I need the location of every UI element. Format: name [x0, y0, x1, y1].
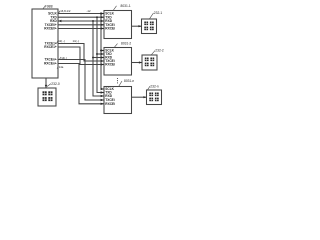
svg-text:16,8-1/2: 16,8-1/2 — [60, 9, 71, 13]
svg-text:8031-1: 8031-1 — [121, 4, 131, 8]
svg-text:14(.-): 14(.-) — [73, 39, 80, 43]
svg-text:232-2: 232-2 — [155, 49, 164, 53]
svg-text:8031-n: 8031-n — [124, 79, 134, 83]
svg-text:RXCEi: RXCEi — [105, 63, 115, 67]
svg-text:14a: 14a — [59, 65, 64, 69]
svg-text:8031-2: 8031-2 — [121, 42, 131, 46]
svg-text:232-n: 232-n — [150, 84, 159, 88]
svg-text:-12: -12 — [87, 9, 91, 13]
svg-text:12(.-): 12(.-) — [58, 39, 65, 43]
svg-text:RXCE0+: RXCE0+ — [44, 27, 57, 31]
svg-text:F988: F988 — [45, 4, 53, 8]
svg-text:232-0: 232-0 — [51, 82, 60, 86]
svg-text:RXCE1+: RXCE1+ — [44, 45, 57, 49]
svg-text:14(.): 14(.) — [61, 56, 67, 60]
svg-text:RXCEi: RXCEi — [105, 102, 115, 106]
svg-text:RXCEn+: RXCEn+ — [44, 62, 57, 66]
svg-text:RXCEi: RXCEi — [105, 27, 115, 31]
svg-text:232-1: 232-1 — [154, 11, 163, 15]
